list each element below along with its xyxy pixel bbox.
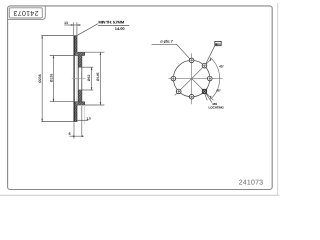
second leader stub from marked hole xyxy=(205,93,208,100)
disc outboard face thick line xyxy=(73,36,75,122)
hatch drum top xyxy=(74,52,85,55)
drum end face bottom xyxy=(84,102,86,105)
leader from balance box xyxy=(206,46,215,65)
drum outer bottom edge + right extension xyxy=(74,104,105,106)
offset dim arrows xyxy=(73,135,83,137)
svg-text:LOCATING: LOCATING xyxy=(209,105,225,109)
section centerline horizontal xyxy=(72,78,86,80)
chamfer leader line xyxy=(77,119,88,121)
min thickness note underline xyxy=(98,25,129,27)
svg-text:45°: 45° xyxy=(216,88,221,92)
angle dimension arc xyxy=(210,58,220,100)
min thickness leader xyxy=(77,24,98,36)
dimension D145 arrows xyxy=(100,52,102,105)
title block inner box xyxy=(9,8,42,18)
svg-text:1.5: 1.5 xyxy=(86,116,91,120)
ring inboard face bottom xyxy=(76,105,78,122)
arc arrowheads xyxy=(210,58,212,100)
svg-text:Ø145: Ø145 xyxy=(96,72,100,81)
offset dim extension A xyxy=(73,122,75,138)
drum end face top xyxy=(84,52,86,55)
drawing frame border xyxy=(8,6,273,190)
thickness dim extension lines xyxy=(73,22,75,35)
title block tab outline xyxy=(8,6,45,19)
thickness dim line xyxy=(64,24,81,26)
svg-text:Ø126: Ø126 xyxy=(49,74,53,83)
svg-text:6: 6 xyxy=(69,132,71,136)
svg-text:45°: 45° xyxy=(219,65,225,69)
offset dim faint extension drum xyxy=(84,106,86,125)
drum inner bottom edge + left extension xyxy=(50,101,85,103)
diagonal centerline -45 xyxy=(192,79,214,101)
dimension D126 line xyxy=(53,56,55,102)
svg-text:13: 13 xyxy=(64,21,68,25)
bore top edge + right extension xyxy=(78,66,93,68)
bore bottom edge + right extension xyxy=(78,89,93,91)
hatch plate top xyxy=(78,56,82,68)
hatch plate bottom xyxy=(78,90,82,102)
bolt hole left xyxy=(171,76,176,81)
svg-text:Ø62: Ø62 xyxy=(87,75,91,82)
bolt hole 45 xyxy=(202,63,207,68)
thickness dim arrows xyxy=(71,24,80,26)
offset dim extension B xyxy=(81,106,83,136)
leader from marked hole xyxy=(205,93,212,103)
OD top face + left extension xyxy=(41,35,77,37)
chamfer leader tick xyxy=(87,119,88,120)
svg-text:14.00: 14.00 xyxy=(115,26,125,31)
svg-text:6-Ø6.7: 6-Ø6.7 xyxy=(160,39,173,44)
hatch ring bottom xyxy=(74,105,77,122)
hatch drum bottom xyxy=(74,102,85,105)
horizontal centerline xyxy=(168,78,222,80)
balance mark box xyxy=(215,41,221,45)
plate right mounting face xyxy=(81,56,83,102)
drum inner top edge + left extension xyxy=(50,55,85,57)
drum outer top edge + right extension xyxy=(74,51,105,53)
bolt hole 225 xyxy=(176,89,181,94)
bolt hole bottom xyxy=(189,94,194,99)
svg-text:241073: 241073 xyxy=(239,179,264,186)
page shadow bottom edge xyxy=(0,194,280,196)
hatch ring top xyxy=(74,36,77,53)
dimension D236 line xyxy=(41,36,43,122)
diagonal centerline 45 xyxy=(175,59,212,96)
svg-text:241073: 241073 xyxy=(13,9,38,17)
bolt hole right xyxy=(208,76,213,81)
marked hole 315 xyxy=(202,89,208,95)
ring inboard face hidden edge xyxy=(76,52,78,105)
dimension D145 line xyxy=(99,52,101,105)
dimension D236 arrows xyxy=(41,36,43,122)
OD bottom face + left extension xyxy=(41,121,77,123)
page shadow right edge xyxy=(277,3,279,195)
plate left face xyxy=(77,56,79,102)
bolt circle xyxy=(173,60,209,96)
bolt hole top xyxy=(189,58,194,63)
svg-text:MIN TH: 5.7MM: MIN TH: 5.7MM xyxy=(98,20,124,24)
dimension D62 line xyxy=(91,67,93,90)
leader to top hole xyxy=(177,44,191,59)
svg-text:Ø236: Ø236 xyxy=(38,74,42,83)
label underline xyxy=(152,43,177,45)
ring inboard face top xyxy=(76,35,78,52)
offset dim line xyxy=(70,135,84,137)
dimension D126 arrows xyxy=(53,56,55,102)
vertical centerline xyxy=(191,53,193,104)
dimension D62 arrows xyxy=(91,67,93,90)
